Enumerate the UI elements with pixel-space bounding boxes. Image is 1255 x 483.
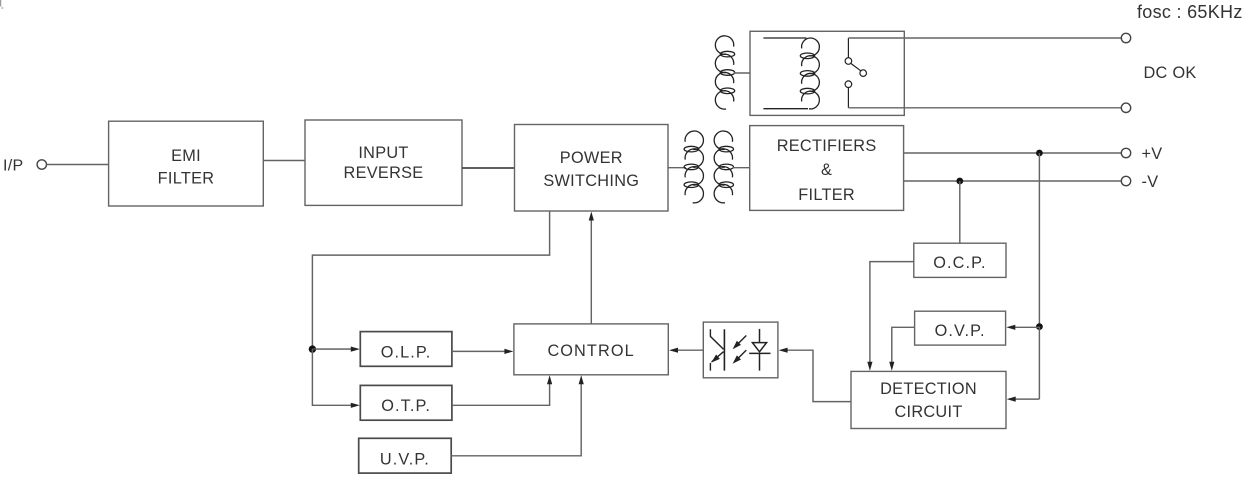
label +V — [1142, 145, 1163, 163]
wire CONTROL to POWER SWITCHING — [589, 212, 594, 324]
wire aux winding to relay box — [734, 72, 750, 74]
label -V — [1142, 173, 1159, 191]
block RECTIFIERS &amp; FILTER — [750, 126, 904, 211]
label fosc : 65KHz — [1137, 2, 1243, 22]
wire -V rail — [904, 180, 1122, 182]
svg-text:O.C.P.: O.C.P. — [933, 254, 986, 272]
wire T1 secondary to RECTIFIERS — [733, 167, 750, 169]
terminal DC OK upper — [1121, 33, 1130, 42]
wire relay to DC OK lower terminal — [848, 107, 1121, 109]
wire bus to O.L.P. — [312, 347, 359, 352]
wire POWER SWITCHING to T1 primary — [668, 167, 686, 169]
svg-text:-V: -V — [1142, 173, 1159, 191]
svg-text:O.T.P.: O.T.P. — [381, 397, 431, 415]
wire O.L.P. to CONTROL — [452, 349, 514, 354]
terminal -V — [1121, 176, 1130, 185]
svg-text:EMI: EMI — [171, 147, 201, 165]
block CONTROL — [514, 324, 668, 375]
terminal I/P — [37, 160, 46, 169]
optocoupler U1 box — [703, 322, 778, 378]
svg-text:I/P: I/P — [3, 157, 23, 174]
relay contact switch — [845, 38, 866, 108]
block O.L.P. — [360, 332, 452, 367]
svg-text:DETECTION: DETECTION — [880, 380, 977, 398]
junction dot protection bus — [309, 345, 316, 352]
svg-text:FILTER: FILTER — [798, 186, 855, 204]
wire tap to O.V.P. — [1006, 325, 1039, 330]
block INPUT REVERSE — [305, 120, 462, 205]
label I/P — [3, 157, 23, 174]
svg-text:INPUT: INPUT — [358, 144, 408, 162]
block O.V.P. — [915, 311, 1006, 345]
wire optocoupler to CONTROL — [669, 348, 703, 353]
wire O.V.P. to DETECTION — [889, 327, 914, 371]
wire sense line to DETECTION right — [1007, 327, 1040, 402]
wire relay to DC OK upper terminal — [848, 37, 1121, 39]
wire +V rail — [904, 152, 1122, 154]
transformer T1 secondary winding — [714, 131, 733, 203]
svg-text:FILTER: FILTER — [158, 169, 215, 187]
wire -V rail to O.C.P. — [959, 181, 961, 243]
svg-text:O.L.P.: O.L.P. — [381, 343, 432, 361]
svg-text:O.V.P.: O.V.P. — [935, 322, 986, 340]
wire +V rail sense line down — [1038, 153, 1040, 327]
block U.V.P. — [359, 438, 452, 473]
svg-text:DC OK: DC OK — [1144, 64, 1197, 82]
wire INPUT REVERSE to POWER SWITCHING — [462, 167, 515, 169]
wire U.V.P. to CONTROL — [451, 375, 584, 456]
transformer T1 primary winding — [684, 131, 703, 203]
svg-text:POWER: POWER — [560, 149, 623, 167]
block DETECTION CIRCUIT — [851, 371, 1006, 428]
wire bus to O.T.P. — [312, 349, 359, 408]
stray crop mark top-left — [1, 0, 4, 9]
svg-text:U.V.P.: U.V.P. — [380, 450, 430, 468]
junction dot -V rail — [956, 178, 963, 185]
wire O.C.P. to DETECTION — [867, 262, 914, 371]
terminal DC OK lower — [1121, 103, 1130, 112]
svg-text:REVERSE: REVERSE — [344, 164, 424, 182]
block O.C.P. — [914, 243, 1006, 277]
block POWER SWITCHING — [515, 125, 669, 212]
block O.T.P. — [360, 385, 452, 420]
wire DETECTION to optocoupler — [779, 348, 851, 402]
block EMI FILTER — [109, 121, 264, 206]
svg-text:CIRCUIT: CIRCUIT — [894, 403, 962, 421]
optocoupler LED — [749, 329, 770, 371]
transformer T1 auxiliary winding — [715, 36, 734, 109]
relay coil — [763, 38, 819, 109]
optocoupler light arrows — [733, 336, 747, 364]
wire POWER SWITCHING to protection bus — [312, 211, 549, 349]
relay box — [750, 31, 904, 115]
junction dot O.V.P. tap — [1036, 323, 1043, 330]
svg-text:fosc : 65KHz: fosc : 65KHz — [1137, 2, 1243, 22]
svg-text:&: & — [821, 161, 832, 179]
svg-text:+V: +V — [1142, 145, 1163, 163]
svg-text:SWITCHING: SWITCHING — [543, 172, 639, 190]
label DC OK — [1144, 64, 1197, 82]
wire EMI FILTER to INPUT REVERSE — [263, 160, 305, 162]
svg-text:RECTIFIERS: RECTIFIERS — [777, 137, 877, 155]
terminal +V — [1121, 148, 1130, 157]
wire O.T.P. to CONTROL — [452, 375, 552, 405]
optocoupler phototransistor — [710, 329, 724, 370]
junction dot +V rail — [1036, 150, 1043, 157]
wire I/P to EMI FILTER — [47, 164, 109, 166]
svg-text:CONTROL: CONTROL — [547, 342, 634, 360]
